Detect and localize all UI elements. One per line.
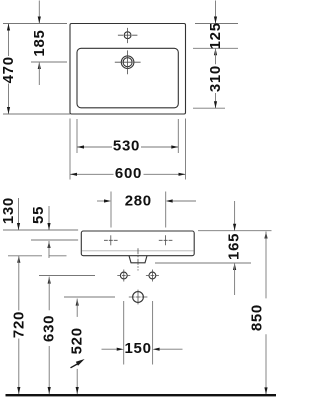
reference line rim level right y230.7 — [198, 230, 272, 232]
front view: vertical centerline — [137, 248, 139, 270]
svg-text:185: 185 — [31, 29, 48, 56]
svg-text:125: 125 — [207, 22, 224, 49]
centerline of pilot hole — [127, 28, 129, 43]
diagonal adjustability arrow — [71, 364, 79, 368]
front view: left wall hole circle — [120, 272, 127, 279]
svg-text:150: 150 — [125, 340, 152, 357]
front view: left fixing cross — [104, 239, 118, 241]
svg-text:520: 520 — [69, 327, 86, 354]
reference line basin underside y255.8 — [8, 255, 42, 257]
svg-text:130: 130 — [0, 197, 17, 224]
dimension 310 — [214, 48, 217, 55]
dimension 150 — [123, 301, 125, 365]
front view: drain outlet trapezoid — [129, 256, 147, 263]
dimension 850 — [264, 232, 267, 239]
extension line bottom left y114 — [3, 113, 70, 115]
extension lines for 600 — [69, 119, 71, 180]
dimension 530 — [77, 146, 112, 148]
dimension 520 — [76, 299, 79, 306]
dimension 125 — [215, 1, 217, 24]
svg-text:55: 55 — [30, 206, 47, 224]
extension line tap hole level y62 — [31, 61, 67, 63]
svg-text:165: 165 — [226, 233, 243, 260]
dimension 720 — [17, 256, 20, 263]
extension line inner bottom y108.2 — [193, 107, 225, 109]
extension line top left y23.5 — [3, 23, 67, 25]
svg-text:850: 850 — [249, 304, 266, 331]
dimension 185 — [38, 1, 40, 24]
centerline of main tap hole — [127, 50, 129, 74]
reference line outlet bottom y263 — [155, 262, 251, 264]
top view: inner bowl rounded rect — [77, 48, 178, 108]
top view: washbasin outer rim — [70, 24, 186, 115]
svg-text:530: 530 — [113, 138, 140, 155]
svg-text:310: 310 — [207, 65, 224, 92]
floor line — [6, 394, 277, 396]
extension line inner top y48.3 — [193, 47, 238, 49]
extension lines for 530 — [76, 119, 78, 153]
svg-text:280: 280 — [125, 193, 152, 210]
reference line wall holes level y275.5 — [39, 275, 95, 277]
front view: right wall hole circle — [149, 272, 156, 279]
top view: main tap hole double circle — [121, 56, 134, 69]
svg-text:720: 720 — [10, 311, 27, 338]
svg-text:630: 630 — [41, 315, 58, 342]
front view: siphon hole circle — [133, 292, 144, 303]
svg-text:600: 600 — [115, 165, 142, 182]
dimension 165 — [234, 201, 236, 231]
reference line siphon level y297 — [64, 296, 115, 298]
extension line top right y23.5 — [195, 23, 238, 25]
front view: hidden interior bottom line — [82, 250, 194, 252]
front view: right fixing cross — [159, 239, 173, 241]
reference line deck top y230 — [3, 229, 78, 231]
dimension 600 — [70, 173, 114, 175]
dimension 470 — [8, 24, 10, 57]
top view: pilot tap hole circle — [124, 32, 131, 39]
svg-text:470: 470 — [0, 56, 17, 83]
reference line fixing holes y240 — [31, 239, 78, 241]
dimension 280 — [110, 192, 112, 228]
front view: basin body — [81, 231, 194, 256]
dimension 630 — [48, 277, 51, 284]
